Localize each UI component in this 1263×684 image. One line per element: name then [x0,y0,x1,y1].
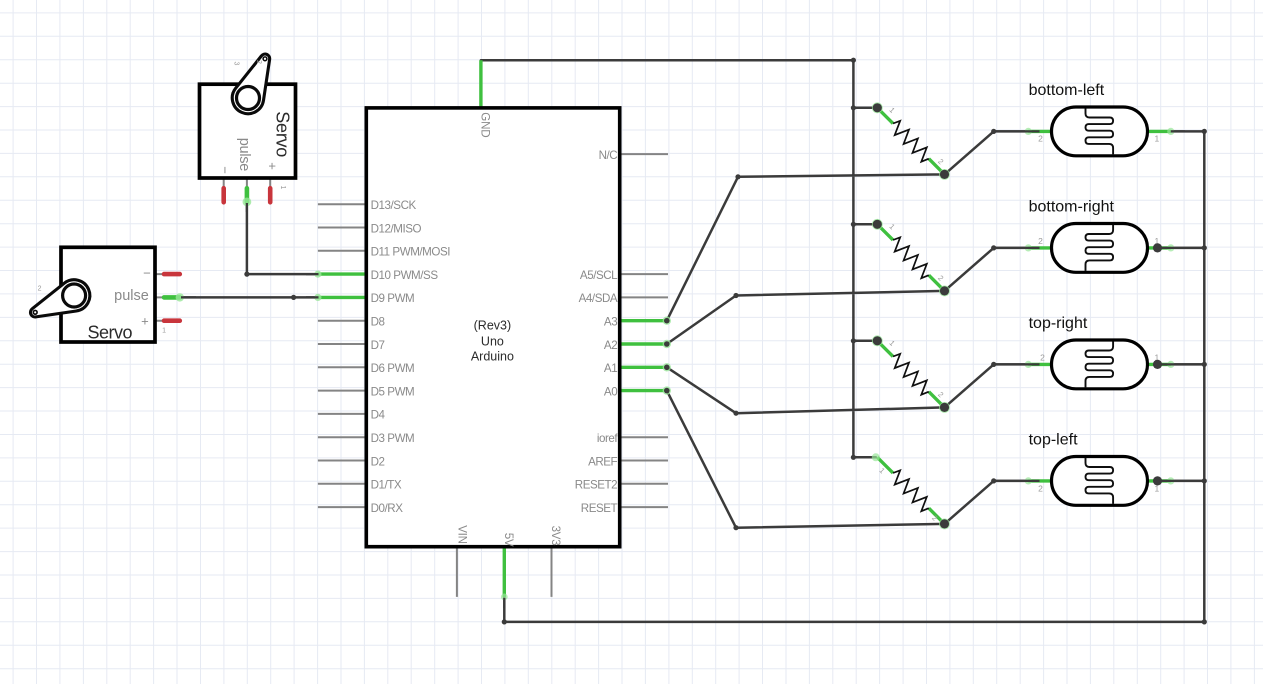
svg-text:RESET2: RESET2 [575,479,617,492]
svg-text:D4: D4 [371,409,386,422]
svg-text:D1/TX: D1/TX [371,479,402,492]
svg-text:Arduino: Arduino [471,349,514,363]
svg-text:D11 PWM/MOSI: D11 PWM/MOSI [371,246,451,259]
svg-text:1: 1 [1155,134,1160,144]
svg-text:−: − [218,166,233,173]
svg-text:2: 2 [1038,236,1043,246]
svg-text:D0/RX: D0/RX [371,502,404,515]
svg-text:GND: GND [479,112,492,137]
svg-text:bottom-right: bottom-right [1029,199,1115,216]
svg-text:pulse: pulse [114,288,149,304]
svg-text:2: 2 [1040,352,1045,362]
svg-text:D5 PWM: D5 PWM [371,385,415,398]
svg-text:Uno: Uno [481,335,504,349]
svg-text:+: + [141,314,148,329]
svg-text:D6 PWM: D6 PWM [371,362,415,375]
svg-text:RESET: RESET [581,502,618,515]
svg-text:D12/MISO: D12/MISO [371,222,422,235]
svg-text:+: + [265,162,280,169]
svg-text:ioref: ioref [597,432,619,445]
svg-text:D13/SCK: D13/SCK [371,199,417,212]
svg-text:N/C: N/C [599,149,618,162]
svg-text:D9 PWM: D9 PWM [371,292,415,305]
svg-text:−: − [143,266,150,281]
svg-text:D7: D7 [371,339,385,352]
svg-text:1: 1 [162,328,166,335]
svg-text:A4/SDA: A4/SDA [579,292,618,305]
svg-text:Servo: Servo [88,323,133,343]
svg-text:A2: A2 [604,339,617,352]
svg-text:top-left: top-left [1029,432,1078,449]
svg-text:(Rev3): (Rev3) [474,318,512,332]
svg-text:A1: A1 [604,362,617,375]
svg-text:top-right: top-right [1029,315,1088,332]
svg-text:3: 3 [232,62,239,66]
svg-text:5V: 5V [502,533,515,547]
svg-text:D3 PWM: D3 PWM [371,432,415,445]
svg-text:1: 1 [279,186,286,190]
svg-text:D2: D2 [371,455,385,468]
svg-text:D10 PWM/SS: D10 PWM/SS [371,269,439,282]
svg-text:2: 2 [38,286,42,293]
svg-text:A0: A0 [604,385,617,398]
svg-text:D8: D8 [371,316,385,329]
svg-text:AREF: AREF [588,455,617,468]
svg-text:bottom-left: bottom-left [1029,82,1105,99]
svg-text:A3: A3 [604,316,617,329]
svg-text:3V3: 3V3 [549,526,562,546]
svg-text:2: 2 [1038,134,1043,144]
svg-text:Servo: Servo [273,111,293,157]
svg-text:2: 2 [1038,483,1043,493]
svg-text:VIN: VIN [456,525,469,544]
svg-text:2: 2 [255,60,262,64]
svg-text:pulse: pulse [236,138,252,172]
svg-text:A5/SCL: A5/SCL [580,269,618,282]
